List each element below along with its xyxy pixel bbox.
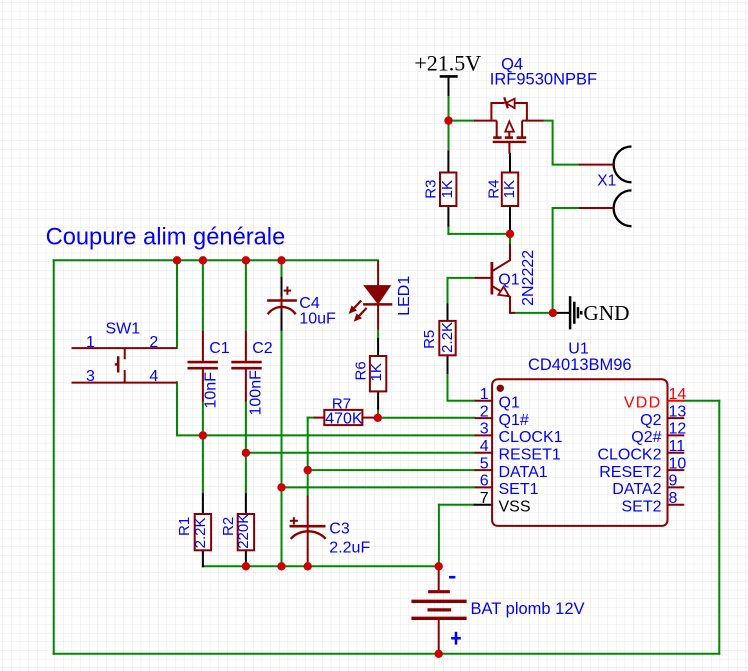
svg-text:4: 4 — [480, 438, 489, 455]
svg-text:Q2: Q2 — [640, 412, 661, 429]
svg-text:R6: R6 — [353, 361, 370, 380]
svg-text:SET2: SET2 — [621, 499, 661, 516]
svg-text:3: 3 — [480, 421, 489, 438]
svg-text:220K: 220K — [235, 514, 252, 549]
svg-text:CLOCK2: CLOCK2 — [597, 447, 661, 464]
svg-text:VDD: VDD — [624, 395, 662, 412]
svg-text:1: 1 — [480, 386, 489, 403]
svg-text:6: 6 — [480, 473, 489, 490]
svg-text:R3: R3 — [423, 180, 440, 199]
svg-text:2: 2 — [149, 334, 158, 351]
svg-text:LED1: LED1 — [396, 276, 413, 316]
svg-text:12: 12 — [669, 421, 687, 438]
svg-text:470K: 470K — [325, 411, 363, 428]
svg-text:C3: C3 — [329, 520, 350, 537]
svg-text:1K: 1K — [439, 180, 456, 198]
svg-text:Q1: Q1 — [499, 395, 520, 412]
svg-text:2.2K: 2.2K — [192, 518, 209, 549]
svg-text:R5: R5 — [421, 330, 438, 349]
svg-text:1: 1 — [86, 334, 95, 351]
svg-text:R4: R4 — [485, 180, 502, 199]
svg-text:+21.5V: +21.5V — [414, 50, 481, 75]
svg-text:Coupure alim générale: Coupure alim générale — [46, 224, 286, 250]
svg-text:7: 7 — [480, 490, 489, 507]
svg-text:U1: U1 — [568, 340, 589, 357]
svg-text:DATA1: DATA1 — [499, 464, 548, 481]
svg-text:2.2uF: 2.2uF — [329, 539, 370, 556]
svg-text:X1: X1 — [597, 172, 616, 189]
svg-text:2: 2 — [480, 403, 489, 420]
svg-text:2N2222: 2N2222 — [520, 250, 537, 306]
svg-text:Q1: Q1 — [498, 272, 519, 289]
svg-text:VSS: VSS — [499, 499, 531, 516]
svg-text:1K: 1K — [368, 363, 385, 381]
svg-text:4: 4 — [149, 368, 158, 385]
svg-text:RESET1: RESET1 — [499, 447, 561, 464]
svg-text:IRF9530NPBF: IRF9530NPBF — [490, 70, 597, 88]
svg-text:10uF: 10uF — [299, 310, 336, 327]
svg-text:100nF: 100nF — [247, 370, 264, 416]
svg-text:5: 5 — [480, 455, 489, 472]
svg-text:13: 13 — [669, 403, 687, 420]
svg-text:9: 9 — [669, 473, 678, 490]
svg-text:8: 8 — [669, 490, 678, 507]
svg-text:3: 3 — [86, 368, 95, 385]
svg-text:1K: 1K — [501, 180, 518, 198]
svg-text:R1: R1 — [176, 517, 193, 536]
svg-text:SET1: SET1 — [499, 481, 539, 498]
svg-text:Q1#: Q1# — [499, 412, 529, 429]
svg-text:C1: C1 — [209, 340, 230, 357]
svg-text:GND: GND — [583, 301, 629, 325]
svg-text:14: 14 — [669, 386, 687, 403]
svg-text:C2: C2 — [252, 340, 273, 357]
svg-text:RESET2: RESET2 — [599, 464, 661, 481]
svg-text:DATA2: DATA2 — [612, 481, 661, 498]
svg-text:10nF: 10nF — [203, 372, 220, 409]
svg-text:11: 11 — [669, 438, 686, 455]
svg-text:CLOCK1: CLOCK1 — [499, 429, 563, 446]
svg-text:BAT plomb 12V: BAT plomb 12V — [471, 600, 585, 618]
svg-text:SW1: SW1 — [106, 320, 141, 337]
svg-text:CD4013BM96: CD4013BM96 — [528, 356, 632, 374]
svg-text:2.2K: 2.2K — [439, 322, 456, 353]
svg-text:10: 10 — [669, 455, 687, 472]
svg-text:Q2#: Q2# — [631, 429, 661, 446]
